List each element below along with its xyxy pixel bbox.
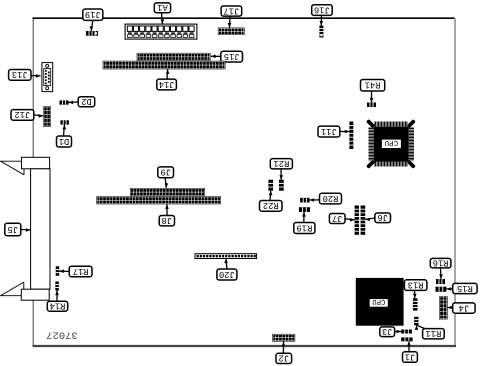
label D1 [57, 125, 72, 147]
connector J12 [43, 106, 51, 127]
svg-text:J12: J12 [14, 109, 30, 119]
label J15 [211, 51, 243, 62]
svg-text:J8: J8 [162, 215, 173, 225]
connector A1 [125, 24, 197, 39]
connector J2 [272, 334, 295, 342]
label R11 [415, 325, 445, 339]
svg-text:R22: R22 [263, 200, 279, 210]
svg-text:D1: D1 [59, 136, 70, 146]
board number 37027 [46, 329, 78, 341]
svg-text:R11: R11 [425, 328, 441, 338]
label R14 [47, 291, 67, 312]
label J17 [221, 5, 242, 27]
connector J15 [137, 53, 211, 61]
label J5 [5, 223, 31, 236]
svg-text:R19: R19 [296, 222, 312, 232]
label J12 [11, 109, 43, 120]
resistor R14 [55, 282, 59, 291]
svg-text:J14: J14 [159, 79, 175, 89]
svg-text:J5: J5 [8, 224, 19, 234]
label J16 [312, 4, 333, 25]
label R19 [294, 212, 315, 234]
label R17 [59, 266, 92, 277]
label J3 [380, 326, 401, 336]
label R22 [260, 191, 283, 212]
label J11 [318, 126, 349, 137]
label R41 [361, 79, 385, 102]
resistor R20 [300, 198, 309, 203]
svg-text:J20: J20 [219, 269, 235, 279]
connector J16 [319, 26, 323, 38]
svg-text:R17: R17 [73, 266, 89, 276]
svg-text:R14: R14 [50, 301, 66, 311]
resistor R15 [436, 287, 447, 292]
connector J7 [355, 206, 359, 235]
svg-text:J2: J2 [279, 353, 290, 363]
svg-text:R15: R15 [457, 283, 473, 293]
connector J19 [86, 31, 98, 36]
resistor R16 [436, 279, 445, 284]
svg-text:J16: J16 [314, 4, 330, 14]
svg-text:J7: J7 [332, 213, 343, 223]
resistor R22 [268, 180, 273, 191]
diode D2 [60, 100, 69, 104]
label J4 [448, 302, 476, 313]
svg-text:J4: J4 [459, 302, 470, 312]
svg-text:J3: J3 [382, 326, 393, 336]
svg-text:J11: J11 [321, 126, 337, 136]
label D2 [69, 96, 95, 107]
svg-text:D2: D2 [81, 96, 92, 106]
connector J17 [218, 28, 245, 35]
label J13 [9, 69, 41, 80]
svg-text:J15: J15 [224, 51, 240, 61]
svg-text:J19: J19 [85, 9, 101, 19]
label J8 [159, 204, 174, 226]
label J1 [403, 341, 418, 362]
svg-text:R16: R16 [433, 257, 449, 267]
label J20 [217, 259, 237, 281]
IC U1 (QFP CPU) [366, 119, 416, 169]
svg-text:R41: R41 [365, 79, 381, 89]
label A1 [154, 2, 170, 24]
edge connector J5 [1, 157, 51, 300]
diode D1 [60, 120, 69, 124]
label J19 [83, 9, 103, 31]
connector J20 [195, 254, 257, 259]
label R16 [430, 257, 451, 279]
svg-text:37027: 37027 [46, 329, 78, 341]
connector J3 [401, 330, 412, 334]
connector J4 [439, 296, 448, 319]
resistor R19 [299, 207, 310, 212]
svg-text:J9: J9 [160, 167, 171, 177]
svg-text:R21: R21 [273, 158, 289, 168]
connector J1 [401, 337, 412, 341]
connector J8 [96, 196, 221, 204]
label J2 [276, 342, 292, 364]
svg-text:CPU: CPU [385, 138, 399, 146]
svg-text:J1: J1 [405, 351, 416, 361]
board outline [33, 18, 457, 346]
resistor R11 [414, 317, 418, 326]
connector J14 [103, 61, 226, 70]
connector J11 [349, 122, 353, 150]
label R15 [446, 283, 477, 294]
svg-text:R20: R20 [323, 193, 339, 203]
svg-text:R13: R13 [408, 279, 424, 289]
resistor R41 [367, 103, 376, 108]
resistor R21 [279, 180, 284, 191]
resistor R17 [56, 266, 60, 276]
resistor R13 [413, 298, 418, 310]
svg-text:J17: J17 [223, 5, 239, 15]
connector J9 [130, 188, 205, 196]
svg-text:CPU: CPU [372, 297, 385, 305]
svg-text:J13: J13 [12, 69, 28, 79]
IC U2 (CPU) [356, 278, 404, 326]
connector J6 [361, 206, 366, 235]
label J14 [157, 69, 177, 90]
label J6 [365, 212, 390, 223]
label R13 [404, 279, 427, 298]
svg-text:A1: A1 [157, 2, 168, 12]
label R20 [310, 193, 342, 204]
label R21 [270, 158, 292, 179]
label J9 [158, 167, 174, 188]
connector J13 (DB9) [42, 63, 53, 92]
svg-text:J6: J6 [377, 212, 388, 222]
label J7 [329, 213, 354, 224]
